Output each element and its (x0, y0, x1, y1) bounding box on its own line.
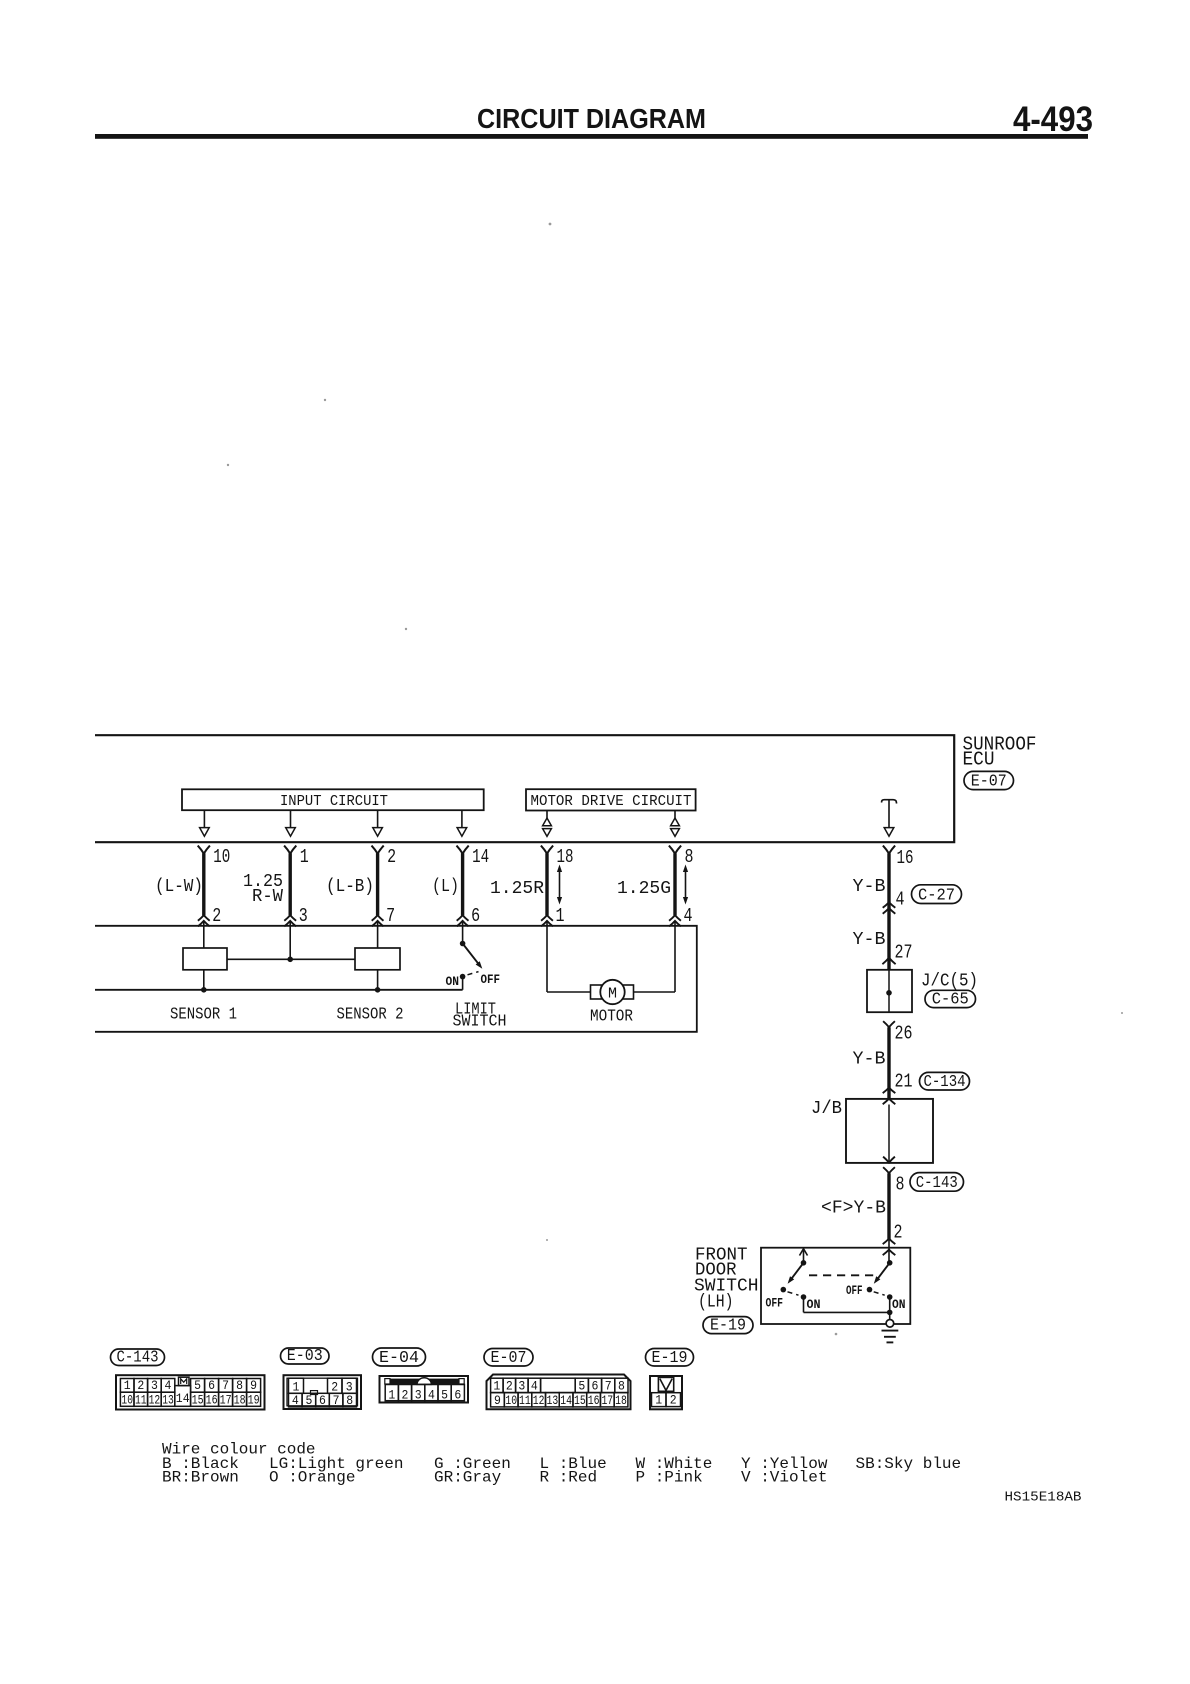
junction block J/B box (846, 1099, 933, 1163)
svg-text:1.25R: 1.25R (490, 879, 544, 899)
svg-text:SWITCH: SWITCH (453, 1013, 507, 1032)
wire pin1 to sensor link (289, 921, 291, 959)
svg-text:INPUT CIRCUIT: INPUT CIRCUIT (280, 793, 388, 810)
svg-text:4: 4 (531, 1380, 538, 1394)
motor-drive bidirectional arrow 2 (674, 811, 676, 819)
switch linkage dashed line (809, 1274, 878, 1276)
svg-text:R-W: R-W (252, 887, 283, 907)
motor brush tabs (591, 985, 602, 999)
svg-text:8: 8 (346, 1394, 353, 1408)
svg-text:OFF: OFF (766, 1296, 784, 1311)
connector label E-03 (pinout) (281, 1348, 330, 1364)
motor M1 (600, 980, 624, 1004)
svg-text:6: 6 (471, 905, 480, 927)
svg-text:5: 5 (441, 1388, 448, 1402)
limit switch arm (to OFF) (463, 944, 481, 967)
scan specks (549, 223, 552, 226)
svg-text:OFF: OFF (481, 972, 501, 987)
ECU pin 8 connector terminal (669, 846, 681, 854)
svg-text:2: 2 (387, 846, 396, 868)
svg-text:7: 7 (222, 1379, 229, 1393)
svg-text:5: 5 (194, 1379, 201, 1393)
J/C exit terminal (883, 1021, 895, 1027)
sensor S2 lead + junction (377, 970, 379, 990)
connector label E-07 (pinout) (484, 1349, 533, 1367)
sensor link line (227, 958, 355, 960)
svg-text:V :Violet: V :Violet (741, 1469, 827, 1487)
door switch left OFF contact (781, 1287, 787, 1293)
svg-text:9: 9 (250, 1379, 257, 1393)
sensor S2 box (355, 948, 400, 970)
svg-text:12: 12 (149, 1393, 161, 1407)
svg-text:17: 17 (220, 1393, 232, 1407)
svg-text:16: 16 (206, 1393, 218, 1407)
svg-text:Y-B: Y-B (853, 877, 886, 897)
svg-text:27: 27 (895, 942, 913, 964)
ground symbol (882, 1330, 899, 1332)
svg-text:18: 18 (615, 1394, 627, 1408)
svg-text:11: 11 (519, 1394, 531, 1408)
INPUT CIRCUIT box (182, 789, 484, 810)
svg-text:GR:Gray: GR:Gray (434, 1469, 502, 1487)
svg-text:SB:Sky blue: SB:Sky blue (856, 1455, 962, 1473)
svg-text:10: 10 (213, 846, 230, 868)
door switch left arm (789, 1263, 803, 1282)
svg-text:8: 8 (236, 1379, 243, 1393)
svg-text:O :Orange: O :Orange (269, 1469, 355, 1487)
connector pinout E-03 (284, 1375, 362, 1409)
component enclosure box (open left) (95, 926, 697, 1032)
joint connector entry chevron (882, 958, 895, 964)
svg-text:12: 12 (533, 1394, 545, 1408)
svg-text:ON: ON (446, 974, 460, 989)
svg-text:1: 1 (293, 1380, 300, 1394)
svg-text:C-65: C-65 (932, 989, 969, 1008)
ground terminal circle (886, 1320, 894, 1328)
svg-text:4: 4 (428, 1388, 435, 1402)
svg-text:C-134: C-134 (924, 1072, 966, 1091)
svg-text:HS15E18AB: HS15E18AB (1005, 1490, 1082, 1506)
svg-text:18: 18 (234, 1393, 246, 1407)
svg-text:6: 6 (319, 1394, 326, 1408)
svg-text:6: 6 (208, 1379, 215, 1393)
limit switch dashed throw (468, 972, 479, 975)
bidirectional wire arrow 1 (559, 869, 561, 900)
door switch right ON contact (887, 1294, 893, 1300)
wire (F)Y-B to door switch (887, 1173, 890, 1240)
connector label E-19 (703, 1317, 753, 1334)
svg-text:C-27: C-27 (918, 885, 955, 904)
connector label C-65 (925, 990, 976, 1007)
svg-text:16: 16 (588, 1394, 600, 1408)
svg-text:(L-W): (L-W) (155, 877, 203, 897)
MOTOR DRIVE CIRCUIT box (526, 789, 696, 810)
door switch ground link (804, 1311, 890, 1313)
svg-text:26: 26 (895, 1023, 913, 1045)
ECU pin 1 connector terminal (284, 846, 296, 854)
svg-text:1.25G: 1.25G (617, 879, 671, 899)
wire pin10 to sensor1 (203, 921, 205, 948)
door switch left ON contact (801, 1294, 807, 1300)
svg-text:C-143: C-143 (916, 1173, 958, 1192)
J/C internal wire + junction dot (888, 970, 890, 1012)
connector label C-134 (920, 1072, 970, 1090)
svg-text:9: 9 (494, 1394, 501, 1408)
svg-text:E-04: E-04 (379, 1348, 419, 1367)
svg-text:OFF: OFF (846, 1283, 863, 1298)
svg-text:8: 8 (896, 1174, 905, 1196)
svg-text:7: 7 (333, 1394, 340, 1408)
C-134 connector chevrons (883, 1088, 896, 1094)
door switch entry chevrons (883, 1239, 896, 1245)
svg-text:2: 2 (212, 905, 221, 927)
connector label C-143 (pinout) (111, 1349, 165, 1366)
connector label C-27 (912, 885, 962, 904)
J/B internal wire (888, 1105, 890, 1163)
limit switch ON contact (460, 974, 466, 980)
input-circuit arrow 4 (461, 810, 463, 828)
sensor common line (95, 989, 463, 991)
svg-text:SENSOR 1: SENSOR 1 (170, 1006, 237, 1025)
svg-text:10: 10 (505, 1394, 517, 1408)
svg-text:C-143: C-143 (117, 1347, 159, 1366)
svg-text:(LH): (LH) (698, 1293, 734, 1313)
svg-text:E-07: E-07 (491, 1348, 527, 1367)
svg-text:3: 3 (151, 1379, 158, 1393)
connector label E-04 (pinout) (373, 1348, 426, 1366)
ECU pin 10 connector terminal (198, 846, 210, 854)
svg-text:2: 2 (670, 1394, 677, 1408)
svg-text:19: 19 (248, 1393, 260, 1407)
svg-text:13: 13 (547, 1394, 559, 1408)
sunroof ECU box (open left) (95, 735, 954, 842)
svg-text:14: 14 (176, 1392, 190, 1406)
svg-text:5: 5 (578, 1380, 585, 1394)
wire pin14 to limit switch (462, 921, 464, 944)
svg-text:ON: ON (807, 1297, 821, 1312)
ECU pin 18 connector terminal (541, 846, 553, 854)
motor-drive bidirectional arrow 1 (546, 811, 548, 819)
svg-text:E-19: E-19 (652, 1348, 688, 1367)
svg-text:ON: ON (892, 1297, 906, 1312)
bidirectional wire arrow 2 (685, 869, 687, 900)
svg-text:6: 6 (454, 1388, 461, 1402)
svg-text:Y-B: Y-B (853, 930, 886, 950)
svg-text:(L-B): (L-B) (326, 877, 374, 897)
limit switch common (460, 941, 466, 947)
svg-text:3: 3 (346, 1380, 353, 1394)
input-circuit arrow 1 (203, 810, 205, 828)
ECU pin 16 connector terminal (883, 846, 895, 854)
svg-text:7: 7 (386, 905, 395, 927)
svg-text:11: 11 (135, 1393, 147, 1407)
svg-text:8: 8 (618, 1380, 625, 1394)
svg-text:18: 18 (557, 846, 574, 868)
front door switch box (761, 1248, 910, 1324)
svg-text:R :Red: R :Red (540, 1469, 598, 1487)
svg-text:10: 10 (121, 1393, 133, 1407)
svg-text:BR:Brown: BR:Brown (162, 1469, 239, 1487)
door switch left dashed throw (788, 1292, 799, 1295)
wire pin18 to motor (546, 921, 548, 992)
svg-text:2: 2 (402, 1388, 409, 1402)
wire into door switch (888, 1240, 890, 1263)
svg-text:1: 1 (556, 905, 565, 927)
svg-text:13: 13 (162, 1393, 174, 1407)
wire Y-B J/C to J/B (887, 1027, 890, 1099)
svg-text:SENSOR 2: SENSOR 2 (337, 1006, 404, 1025)
svg-text:16: 16 (897, 847, 914, 869)
connector label E-07 (ECU) (964, 771, 1014, 789)
svg-text:P :Pink: P :Pink (636, 1469, 703, 1487)
svg-text:14: 14 (560, 1394, 572, 1408)
svg-text:21: 21 (895, 1071, 913, 1093)
ECU pin 14 connector terminal (457, 846, 469, 854)
svg-text:J/B: J/B (811, 1099, 842, 1119)
svg-text:3: 3 (299, 905, 308, 927)
connector label C-143 (910, 1173, 964, 1192)
wire pin2 to sensor2 (377, 921, 379, 948)
svg-text:1: 1 (493, 1380, 500, 1394)
svg-text:Y-B: Y-B (853, 1050, 886, 1070)
junction connector J/C(5) box (867, 970, 912, 1012)
svg-text:2: 2 (331, 1380, 338, 1394)
ECU internal contact symbol (882, 800, 897, 804)
door switch right dashed throw (874, 1292, 885, 1295)
door switch right common (887, 1260, 893, 1266)
sensor S1 lead + junction (203, 970, 205, 990)
svg-text:CIRCUIT DIAGRAM: CIRCUIT DIAGRAM (477, 103, 706, 134)
door switch right OFF contact (867, 1287, 873, 1293)
svg-text:MOTOR: MOTOR (590, 1008, 633, 1027)
C-143 connector terminals (883, 1157, 895, 1163)
wire Y-B pin16 to C-27 (883, 902, 896, 908)
svg-text:8: 8 (685, 846, 694, 868)
wire pin8 to motor (674, 921, 676, 992)
svg-text:1: 1 (300, 846, 309, 868)
sensor S1 box (183, 948, 227, 970)
svg-text:2: 2 (894, 1222, 903, 1244)
connector label E-19 (pinout) (646, 1349, 694, 1367)
svg-text:2: 2 (506, 1380, 513, 1394)
svg-text:<F>Y-B: <F>Y-B (821, 1199, 886, 1219)
svg-text:4: 4 (896, 889, 905, 911)
svg-text:4: 4 (684, 905, 693, 927)
connector pinout E-19 (650, 1376, 682, 1409)
svg-text:5: 5 (305, 1394, 312, 1408)
svg-text:E-03: E-03 (287, 1346, 323, 1365)
svg-text:ECU: ECU (963, 749, 995, 771)
svg-text:M: M (608, 986, 617, 1003)
door switch left common (801, 1260, 807, 1266)
header rule (95, 134, 1088, 139)
input-circuit arrow 3 (377, 810, 379, 828)
connector pinout E-04 (380, 1376, 469, 1403)
connector pinout E-07 (487, 1375, 631, 1410)
svg-text:15: 15 (574, 1394, 586, 1408)
connector pinout C-143 (116, 1375, 265, 1409)
svg-text:E-07: E-07 (971, 771, 1007, 790)
svg-text:4-493: 4-493 (1013, 100, 1093, 139)
svg-text:(L): (L) (432, 877, 459, 897)
svg-text:1: 1 (388, 1388, 395, 1402)
ECU pin 2 connector terminal (372, 846, 384, 854)
input-circuit arrow 2 (290, 810, 292, 828)
svg-text:15: 15 (192, 1393, 204, 1407)
svg-text:14: 14 (472, 846, 489, 868)
svg-text:1: 1 (655, 1394, 662, 1408)
svg-text:3: 3 (415, 1388, 422, 1402)
svg-text:7: 7 (605, 1380, 612, 1394)
svg-text:17: 17 (601, 1394, 613, 1408)
svg-text:6: 6 (592, 1380, 599, 1394)
svg-text:4: 4 (165, 1379, 172, 1393)
svg-text:E-19: E-19 (710, 1315, 746, 1334)
svg-text:2: 2 (137, 1379, 144, 1393)
door switch left feed arrow (803, 1251, 805, 1263)
svg-text:MOTOR DRIVE CIRCUIT: MOTOR DRIVE CIRCUIT (531, 793, 692, 810)
svg-text:3: 3 (518, 1380, 525, 1394)
svg-text:4: 4 (292, 1394, 299, 1408)
door switch right arm (876, 1263, 890, 1282)
svg-text:1: 1 (124, 1379, 131, 1393)
